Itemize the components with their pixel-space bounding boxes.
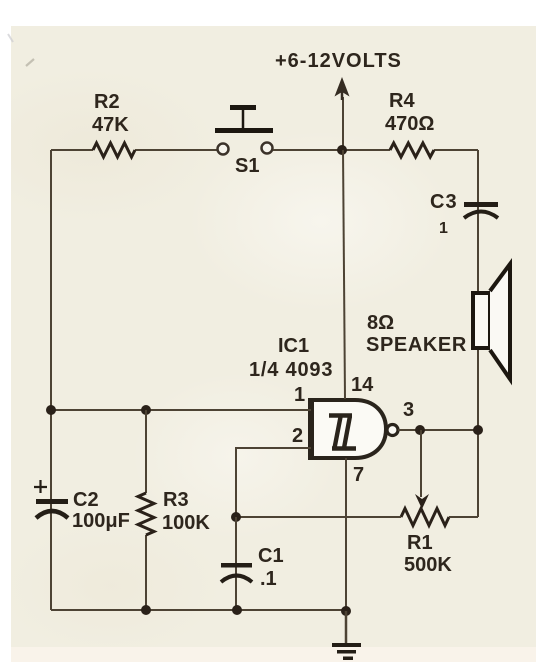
node junction pin1 / left rail <box>46 405 56 415</box>
resistor R3 <box>138 493 154 535</box>
label R1 value <box>404 532 452 576</box>
svg-text:IC1: IC1 <box>278 335 309 357</box>
svg-text:R1: R1 <box>407 532 433 554</box>
wire bottom rail <box>51 609 346 611</box>
svg-text:100K: 100K <box>162 512 210 534</box>
power arrow +V supply <box>335 77 350 150</box>
wire R3 branch top <box>145 410 147 493</box>
svg-text:+6-12VOLTS: +6-12VOLTS <box>275 50 402 72</box>
wire pin 7 to ground rail <box>345 458 347 611</box>
svg-text:1/4 4093: 1/4 4093 <box>249 359 333 381</box>
wire right rail <box>477 150 479 517</box>
label C1 value <box>258 545 284 590</box>
svg-text:S1: S1 <box>235 155 259 177</box>
output bubble pin 3 <box>387 425 398 436</box>
svg-text:1: 1 <box>294 384 305 406</box>
ground <box>332 611 361 660</box>
label R4 value <box>385 90 434 135</box>
node junction output / wiper <box>415 425 425 435</box>
node junction C1 / bottom rail <box>232 605 242 615</box>
node junction power/top rail <box>337 145 347 155</box>
svg-text:7: 7 <box>353 464 364 486</box>
wire R3 branch bottom <box>145 535 147 610</box>
wire faint scan mark top-left <box>26 59 34 66</box>
node junction pin1 / R3 branch <box>141 405 151 415</box>
svg-text:SPEAKER: SPEAKER <box>366 334 467 356</box>
label C2 value <box>72 489 130 532</box>
svg-text:3: 3 <box>403 399 414 421</box>
svg-text:.1: .1 <box>260 568 277 590</box>
speaker LS1 <box>473 264 510 379</box>
node junction pin2 / R1 / C1 <box>231 512 241 522</box>
wire R1 right <box>449 516 478 518</box>
resistor R1 potentiometer <box>401 509 449 526</box>
svg-text:47K: 47K <box>92 114 129 136</box>
svg-text:1: 1 <box>439 220 448 237</box>
svg-text:R2: R2 <box>94 91 120 113</box>
wire top rail left segment <box>51 149 217 151</box>
node junction ground / bottom rail <box>341 606 351 616</box>
node junction output / right rail <box>473 425 483 435</box>
capacitor C1 <box>221 517 252 610</box>
wire output pin 3 <box>398 429 478 431</box>
svg-text:500K: 500K <box>404 554 452 576</box>
label R3 value <box>162 489 210 534</box>
svg-text:C1: C1 <box>258 545 284 567</box>
resistor R4 <box>390 143 434 157</box>
label 8 ohm SPEAKER <box>366 312 467 356</box>
op-amp gate IC1 NAND <box>311 398 386 460</box>
svg-text:C2: C2 <box>73 489 99 511</box>
wire top rail right segment <box>273 149 478 151</box>
wire pin 1 input <box>51 409 311 411</box>
label IC1 1/4 4093 <box>249 335 333 381</box>
capacitor C2 electrolytic <box>34 480 68 518</box>
wire pin 2 input <box>236 448 311 517</box>
wire wiper arrow to R1 <box>415 430 429 509</box>
svg-text:R3: R3 <box>163 489 189 511</box>
capacitor C3 <box>464 202 498 218</box>
wire R1 left <box>236 516 401 518</box>
svg-text:2: 2 <box>292 425 303 447</box>
svg-text:8Ω: 8Ω <box>367 312 394 334</box>
svg-text:C3: C3 <box>430 191 458 213</box>
label R2 value <box>92 91 129 136</box>
wire left rail <box>50 150 52 610</box>
resistor R2 <box>93 143 135 157</box>
svg-text:470Ω: 470Ω <box>385 113 434 135</box>
svg-text:100μF: 100μF <box>72 510 130 532</box>
node junction R3 / bottom rail <box>141 605 151 615</box>
switch S1 <box>215 105 273 155</box>
wire pin 14 power <box>343 150 345 399</box>
svg-text:14: 14 <box>351 374 374 396</box>
label C3 value <box>430 191 458 237</box>
svg-text:R4: R4 <box>389 90 415 112</box>
